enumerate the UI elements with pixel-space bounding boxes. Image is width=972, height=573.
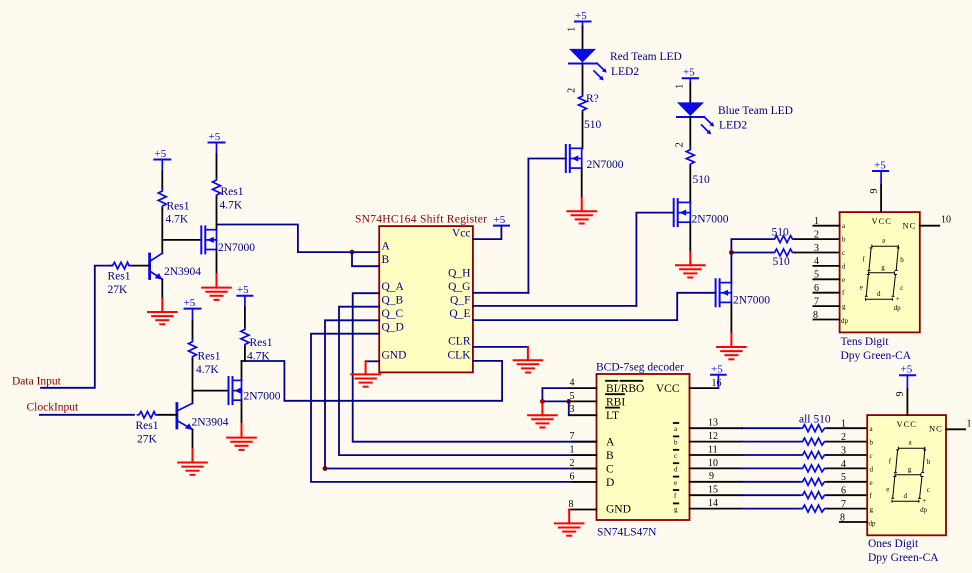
pin 2 C [572, 468, 597, 470]
svg-text:LT: LT [606, 410, 619, 422]
pin name a (with bar) [674, 423, 679, 433]
resistor RN6 510 (f) [742, 492, 867, 499]
svg-text:CLR: CLR [448, 335, 471, 347]
wire +5 to resistor [244, 308, 246, 327]
wire source down [241, 400, 243, 424]
svg-text:11: 11 [708, 444, 718, 455]
wire Q_B to decoder B [339, 307, 597, 455]
svg-text:c: c [674, 452, 677, 460]
wire resistor to drain node [244, 347, 246, 361]
resistor RN7 510 (g) [742, 505, 867, 512]
svg-text:+5: +5 [575, 10, 587, 22]
wire base lead [129, 265, 149, 267]
svg-text:510: 510 [693, 174, 711, 186]
pin 12 b [690, 431, 742, 442]
resistor 510 (tens segment c) [772, 249, 795, 256]
wire base lead [157, 414, 177, 416]
svg-text:e: e [886, 486, 889, 494]
transistor Q3 2N7000 (tens digit driver) [716, 279, 732, 306]
power +5 (decoder VCC) [711, 363, 726, 388]
wire resistor to display pin2 [795, 238, 840, 240]
wire Q_F to blue driver gate [473, 305, 637, 307]
node junction Q_C corner [323, 466, 328, 471]
svg-text:+5: +5 [683, 67, 695, 79]
wire data input [41, 266, 111, 388]
svg-text:BCD-7seg decoder: BCD-7seg decoder [596, 362, 684, 374]
svg-text:all 510: all 510 [799, 414, 831, 426]
svg-text:2N7000: 2N7000 [587, 159, 624, 171]
wire clock input [40, 414, 134, 416]
power +5 (R1 top) [154, 148, 170, 171]
node junction A/B tie [350, 250, 355, 255]
svg-text:9: 9 [709, 471, 714, 482]
svg-text:VCC: VCC [897, 419, 917, 429]
svg-text:e: e [870, 479, 873, 487]
LED D_blue LED2 [677, 102, 714, 134]
pin 5 [813, 278, 839, 280]
resistor R5 Res1 27K [138, 412, 158, 419]
power +5 (ones) [900, 364, 915, 390]
wire drain up to pin2 row [731, 239, 772, 283]
svg-text:B: B [606, 450, 614, 462]
ground (CLR) [514, 347, 543, 373]
pin 4 BI/RBO [569, 387, 597, 389]
wire Vcc pin to +5 [473, 226, 502, 240]
svg-text:10: 10 [708, 458, 718, 469]
wire drain lead [241, 361, 243, 380]
svg-text:Q_A: Q_A [382, 281, 405, 293]
resistor RN2 510 (b) [742, 438, 867, 445]
svg-text:Res1: Res1 [221, 186, 244, 198]
svg-text:b: b [927, 458, 931, 466]
wire emitter down [161, 279, 163, 298]
node junction (drain / pin3 branch) [729, 250, 734, 255]
svg-text:c: c [842, 249, 845, 257]
wire gate link to MOSFET [193, 390, 229, 392]
wire junction to resistor pin3 [731, 252, 772, 254]
svg-text:SN74LS47N: SN74LS47N [597, 527, 657, 539]
resistor R2 Res1 27K [111, 262, 131, 269]
svg-text:C: C [606, 464, 614, 476]
pin 1 [813, 225, 839, 227]
svg-text:d: d [842, 262, 846, 270]
ground (LT/RBI/BI tie) [528, 401, 557, 427]
svg-text:4.7K: 4.7K [196, 364, 219, 376]
wire resistor to drain node [216, 197, 218, 229]
ground (clock buffer) [227, 424, 256, 450]
svg-text:5: 5 [814, 270, 819, 281]
svg-text:Red Team LED: Red Team LED [610, 51, 682, 63]
svg-text:510: 510 [773, 256, 791, 268]
svg-text:1: 1 [841, 419, 846, 430]
svg-text:16: 16 [712, 378, 722, 389]
ground (shift register GND) [351, 361, 380, 386]
svg-text:4.7K: 4.7K [220, 200, 243, 212]
svg-text:NC: NC [903, 221, 917, 231]
svg-text:13: 13 [708, 418, 718, 429]
display U_tens body [840, 212, 920, 332]
wire Q_G to red driver gate [473, 292, 529, 294]
svg-text:1: 1 [570, 445, 575, 456]
wire LED cathode to resistor [582, 64, 584, 95]
svg-text:Vcc: Vcc [452, 228, 471, 240]
wire Q_E to tens driver gate [473, 319, 677, 321]
seven segment glyph (tens) [860, 237, 904, 313]
wire Q_D to decoder D [311, 334, 597, 482]
chip U1 SN74HC164 body [379, 226, 473, 372]
svg-text:Res1: Res1 [250, 337, 273, 349]
svg-text:9: 9 [869, 189, 880, 194]
wire CLR [473, 346, 528, 348]
svg-text:9: 9 [895, 392, 906, 397]
ground (data transistor) [148, 299, 177, 325]
svg-text:g: g [908, 465, 912, 473]
svg-text:1: 1 [567, 27, 578, 32]
svg-text:d: d [674, 465, 678, 473]
power +5 (tens) [873, 159, 888, 185]
svg-text:+: + [896, 295, 900, 303]
svg-text:2N3904: 2N3904 [192, 417, 229, 429]
svg-text:+5: +5 [494, 214, 506, 226]
svg-text:6: 6 [570, 471, 575, 482]
svg-text:Blue Team LED: Blue Team LED [718, 105, 793, 117]
svg-text:c: c [927, 486, 930, 494]
pin name BI/RBO [606, 381, 644, 395]
svg-text:SN74HC164 Shift Register: SN74HC164 Shift Register [355, 214, 487, 226]
svg-text:g: g [674, 506, 678, 514]
svg-text:+5: +5 [209, 131, 221, 143]
svg-text:NC: NC [929, 424, 943, 434]
svg-text:7: 7 [570, 431, 575, 442]
svg-text:Q_B: Q_B [382, 295, 404, 307]
display U_ones body [867, 415, 946, 535]
svg-text:1: 1 [814, 216, 819, 227]
pin 8 [813, 319, 839, 321]
resistor 510 (blue LED) [686, 147, 694, 166]
svg-text:10: 10 [967, 419, 972, 430]
svg-text:d: d [877, 290, 881, 298]
wire resistor to MOSFET drain [689, 166, 691, 202]
svg-text:Q_E: Q_E [449, 308, 470, 320]
svg-text:A: A [382, 241, 391, 253]
svg-text:+5: +5 [237, 284, 249, 296]
svg-text:Res1: Res1 [198, 351, 221, 363]
wire source down [689, 222, 691, 252]
wire pin4 tie [542, 388, 569, 401]
svg-text:dp: dp [841, 317, 849, 325]
transistor Q4 2N3904 (data) [150, 253, 163, 279]
wire LED anode lead [582, 27, 584, 49]
svg-text:Q_D: Q_D [382, 322, 404, 334]
svg-text:dp: dp [920, 506, 928, 514]
wire +5 to resistor [161, 171, 163, 188]
wire pin5 tie [542, 400, 569, 402]
transistor Q5 2N7000 (data buffer) [201, 226, 216, 253]
svg-text:A: A [606, 437, 615, 449]
pin name c [674, 450, 679, 460]
wire +5 to resistor [216, 155, 218, 178]
svg-text:Q_F: Q_F [450, 295, 470, 307]
wire VCC stem [880, 185, 882, 212]
svg-text:510: 510 [772, 227, 790, 239]
svg-text:c: c [870, 452, 873, 460]
svg-text:4: 4 [814, 256, 819, 267]
pin name b [674, 436, 679, 446]
svg-text:d: d [904, 492, 908, 500]
pin 5 RBI [569, 400, 597, 402]
wire gate from Q_E [677, 293, 715, 320]
svg-text:b: b [900, 256, 904, 264]
wire anode lead [689, 84, 691, 103]
svg-text:2: 2 [567, 88, 578, 93]
wire pin3 tie [568, 401, 570, 415]
wire +5 to resistor [192, 321, 194, 340]
wire gate link to MOSFET [162, 239, 201, 241]
pin 13 a [690, 418, 742, 429]
svg-text:VCC: VCC [872, 216, 892, 226]
resistor R4 Res1 4.7K [189, 339, 197, 359]
pin 8 GND [569, 509, 596, 511]
svg-text:6: 6 [841, 486, 846, 497]
pin 4 [813, 265, 839, 267]
resistor R3 Res1 4.7K [213, 178, 221, 198]
svg-text:27K: 27K [108, 284, 129, 296]
power +5 (R4 top) [184, 297, 201, 321]
wire gate from Q_G [528, 159, 565, 293]
svg-text:Res1: Res1 [108, 271, 131, 283]
svg-text:4: 4 [841, 459, 846, 470]
svg-text:+5: +5 [711, 363, 723, 375]
svg-text:GND: GND [382, 349, 407, 361]
wire source down [581, 168, 583, 198]
svg-text:Ones Digit: Ones Digit [868, 538, 919, 550]
svg-text:10: 10 [941, 215, 951, 226]
svg-text:2N7000: 2N7000 [733, 295, 770, 307]
svg-text:6: 6 [814, 283, 819, 294]
svg-text:b: b [674, 439, 678, 447]
svg-text:3: 3 [841, 445, 846, 456]
resistor 510 (tens segment b) [772, 236, 795, 243]
svg-text:GND: GND [606, 504, 631, 516]
resistor RN4 510 (d) [742, 465, 867, 472]
ground (red LED driver) [567, 198, 596, 224]
wire Q_C to decoder C [325, 320, 597, 468]
wire collector column [192, 359, 194, 403]
svg-text:Q_H: Q_H [448, 268, 470, 280]
resistor RN5 510 (e) [742, 478, 867, 485]
pin name d [674, 463, 679, 473]
pin name letters a-dp [841, 222, 849, 325]
pin name e [674, 477, 679, 487]
transistor Q2 2N7000 (blue LED driver) [674, 199, 691, 226]
svg-text:510: 510 [584, 119, 602, 131]
svg-text:b: b [842, 236, 846, 244]
power +5 (shift register Vcc) [494, 214, 510, 226]
pin 1 B [572, 454, 597, 456]
svg-text:LED2: LED2 [719, 120, 747, 132]
transistor Q1 2N7000 (red LED driver) [566, 145, 582, 172]
pin 11 c [690, 444, 742, 455]
svg-text:4: 4 [570, 378, 575, 389]
svg-text:3: 3 [570, 404, 575, 415]
svg-text:Res1: Res1 [167, 201, 190, 213]
node junction pin5 [566, 399, 571, 404]
svg-text:3: 3 [814, 243, 819, 254]
ground (blue LED driver) [676, 252, 705, 278]
resistor R? 510 (red LED) [579, 94, 587, 113]
resistor R1 Res1 4.7K [158, 189, 166, 209]
ground (clock transistor) [178, 449, 207, 475]
wire gate from Q_F [636, 213, 673, 306]
svg-text:Q_C: Q_C [382, 308, 404, 320]
svg-text:2: 2 [675, 142, 686, 147]
node junction ground tie [540, 399, 545, 404]
svg-text:ClockInput: ClockInput [27, 402, 80, 414]
wire GND pin [366, 360, 380, 362]
chip U2 SN74LS47N body [597, 374, 690, 520]
power +5 (R3 top) [209, 131, 225, 155]
wire B tie [352, 252, 379, 266]
pin 7 A [572, 441, 597, 443]
svg-text:e: e [842, 276, 845, 284]
wire cathode to resistor [689, 117, 691, 147]
pin name LT [606, 408, 619, 422]
svg-text:Data Input: Data Input [12, 376, 62, 388]
pin name letters a-dp [869, 425, 877, 527]
pin 7 [813, 305, 839, 307]
svg-text:D: D [606, 477, 614, 489]
svg-text:g: g [842, 303, 846, 311]
svg-text:2: 2 [814, 229, 819, 240]
resistor RN3 510 (c) [742, 452, 867, 459]
svg-text:d: d [870, 465, 874, 473]
svg-text:+5: +5 [155, 148, 167, 160]
svg-text:4.7K: 4.7K [166, 214, 189, 226]
svg-text:R?: R? [586, 93, 599, 105]
svg-text:+5: +5 [901, 364, 913, 376]
svg-text:Res1: Res1 [136, 420, 159, 432]
svg-text:dp: dp [894, 304, 902, 312]
svg-text:CLK: CLK [448, 349, 472, 361]
svg-text:8: 8 [569, 499, 574, 510]
wire source down [216, 250, 218, 275]
svg-text:g: g [881, 263, 885, 271]
ground (data buffer) [202, 274, 231, 300]
pin 6 [813, 292, 839, 294]
wire emitter down [192, 430, 194, 449]
svg-text:2: 2 [570, 458, 575, 469]
pin 16 VCC [690, 387, 719, 389]
svg-text:BI/RBO: BI/RBO [606, 383, 644, 395]
svg-text:2N7000: 2N7000 [692, 214, 729, 226]
svg-text:2N3904: 2N3904 [164, 266, 201, 278]
pin 15 f [690, 485, 742, 496]
pin 8 dp stub [840, 521, 867, 523]
svg-text:c: c [900, 284, 903, 292]
wire resistor to display pin3 [795, 252, 840, 254]
svg-text:1: 1 [675, 84, 686, 89]
svg-text:VCC: VCC [656, 383, 680, 395]
wire Q_A to decoder A [353, 293, 597, 442]
resistor RN1 510 (a) [742, 425, 867, 432]
svg-text:8: 8 [813, 310, 818, 321]
LED D_red LED2 [569, 49, 607, 81]
pin 6 D [572, 481, 597, 483]
svg-text:e: e [674, 479, 677, 487]
pin 10 d [690, 458, 742, 469]
resistor R6 Res1 4.7K [241, 327, 249, 347]
pin 14 g [690, 498, 742, 509]
svg-text:RBI: RBI [606, 396, 625, 408]
pin numbers 1-8 [840, 419, 846, 524]
power +5 (blue LED) [683, 67, 698, 84]
pin name g [674, 503, 679, 513]
svg-text:4.7K: 4.7K [247, 351, 270, 363]
svg-text:7: 7 [814, 296, 819, 307]
pin 10 [920, 225, 940, 227]
transistor Q6 2N3904 (clock) [177, 403, 193, 430]
transistor Q7 2N7000 (clock buffer) [229, 377, 242, 404]
svg-text:27K: 27K [137, 434, 158, 446]
pin 3 LT [569, 414, 597, 416]
svg-text:Q_G: Q_G [448, 281, 470, 293]
ground (tens digit driver) [717, 334, 746, 360]
wire CLK loop to clock driver drain [242, 361, 503, 401]
svg-text:2N7000: 2N7000 [218, 242, 255, 254]
svg-text:2N7000: 2N7000 [244, 391, 281, 403]
svg-text:+: + [922, 497, 926, 505]
svg-text:b: b [870, 439, 874, 447]
ground (decoder GND) [555, 510, 584, 536]
svg-text:Tens Digit: Tens Digit [841, 336, 890, 348]
svg-text:e: e [860, 284, 863, 292]
svg-text:dp: dp [869, 520, 877, 528]
svg-text:+5: +5 [874, 159, 886, 171]
svg-text:Dpy Green-CA: Dpy Green-CA [868, 552, 939, 564]
svg-text:15: 15 [708, 485, 718, 496]
wire source down [730, 302, 732, 333]
wire collector column [161, 208, 163, 253]
seven segment glyph (ones) [886, 439, 930, 515]
svg-text:14: 14 [708, 498, 718, 509]
svg-text:g: g [870, 506, 874, 514]
pin 9 e [690, 471, 742, 482]
pin name RBI [606, 394, 625, 408]
svg-text:Dpy Green-CA: Dpy Green-CA [841, 350, 912, 362]
svg-text:12: 12 [708, 431, 718, 442]
svg-text:7: 7 [841, 499, 846, 510]
wire resistor to MOSFET drain [582, 113, 584, 149]
svg-text:2: 2 [841, 432, 846, 443]
svg-text:5: 5 [841, 472, 846, 483]
svg-text:B: B [382, 254, 390, 266]
svg-text:+5: +5 [184, 297, 196, 309]
svg-text:LED2: LED2 [611, 66, 639, 78]
power +5 (red LED) [575, 10, 591, 27]
wire input A (from MOSFET drain node) [217, 225, 380, 253]
power +5 (R6 top) [237, 284, 253, 308]
pin name f [674, 490, 679, 500]
pin 10 [946, 428, 965, 430]
wire VCC stem [906, 390, 908, 416]
